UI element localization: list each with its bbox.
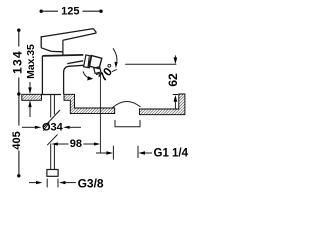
dimension 134 left	[10, 29, 24, 96]
left counter deck section (hatched)	[22, 94, 42, 100]
70 degree tick	[112, 69, 117, 71]
faucet body	[42, 55, 83, 95]
faucet base bottom face across hole	[42, 94, 61, 96]
flexible hose vertical	[51, 144, 55, 170]
sprayer collar	[84, 55, 92, 68]
svg-text:125: 125	[61, 5, 79, 17]
sprayer nozzle tip	[94, 67, 101, 75]
dimension 62	[166, 55, 180, 109]
faucet lever handle	[41, 29, 96, 52]
svg-text:98: 98	[70, 138, 82, 150]
dimension O34	[22, 122, 81, 134]
waste tailpiece stub	[115, 120, 140, 127]
svg-text:Ø34: Ø34	[42, 122, 64, 134]
sprayer head	[89, 56, 102, 69]
svg-text:405: 405	[11, 131, 23, 149]
faucet shank below deck	[51, 95, 55, 118]
swivel arc arrow	[83, 71, 91, 78]
faucet cartridge edge	[62, 40, 64, 56]
flexible hose upper diagonals	[44, 110, 60, 127]
dimension 98	[52, 138, 101, 150]
dimension G1 1/4	[96, 146, 189, 160]
spout height reference line	[125, 63, 176, 65]
svg-text:134: 134	[10, 50, 24, 74]
svg-text:G1 1/4: G1 1/4	[154, 147, 189, 159]
flexible hose lower diagonal	[47, 135, 57, 146]
svg-text:70°: 70°	[96, 61, 119, 84]
step deck section (hatched Z profile)	[64, 94, 115, 113]
dimension Max.35	[26, 44, 37, 117]
svg-text:G3/8: G3/8	[78, 176, 104, 190]
dimension 125 top	[40, 5, 103, 17]
right deck + rim column section (hatched)	[139, 94, 185, 115]
label 70deg	[96, 61, 119, 84]
extension line for 98 (right)	[99, 74, 101, 153]
dimension 405	[11, 96, 23, 178]
svg-text:62: 62	[166, 73, 180, 87]
sprayer collar groove	[88, 56, 89, 67]
waste hole dome	[113, 101, 141, 107]
hose nut G3/8	[47, 170, 58, 177]
70 degree arc with arrow	[113, 48, 117, 63]
dimension G3/8	[29, 176, 104, 190]
svg-text:Max.35: Max.35	[26, 44, 37, 79]
